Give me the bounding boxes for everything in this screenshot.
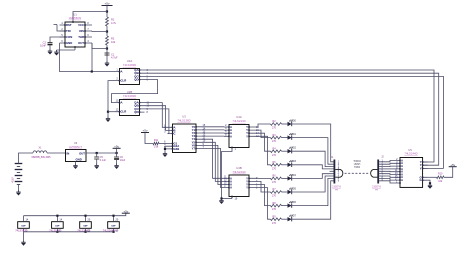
wire U6 GND down: [75, 162, 77, 164]
power block U5P: [108, 222, 120, 229]
connector J1 plug symbol: [335, 169, 343, 177]
resistor R2: [106, 36, 109, 45]
wire LED7 row to J1 pin 9: [292, 181, 334, 219]
svg-text:IN: IN: [67, 152, 70, 156]
svg-text:Y: Y: [246, 186, 248, 190]
wire U2A QB to U5: [145, 73, 439, 165]
wire VCC rail bottom row: [24, 213, 126, 216]
U1 pin stubs: [60, 25, 93, 50]
svg-text:LED4: LED4: [290, 174, 297, 177]
junction ground net right: [429, 182, 431, 184]
ground (U5): [428, 183, 432, 188]
svg-text:270: 270: [272, 195, 277, 198]
svg-text:OUT: OUT: [79, 152, 85, 156]
resistor R9: [271, 218, 282, 221]
regulator U6 body (LM7805): [66, 150, 87, 162]
wire U4B enable to ground net: [222, 198, 233, 200]
U3 pin nubs: [172, 126, 197, 150]
wire LED1 row to J1 pin 2: [292, 138, 334, 165]
U4B pin stubs: [224, 178, 254, 198]
ground (C5): [95, 164, 99, 169]
svg-text:4.7uF: 4.7uF: [111, 56, 118, 60]
svg-text:RST: RST: [66, 23, 72, 27]
ground (U1 GND): [54, 50, 58, 55]
resistor R4: [271, 150, 282, 153]
wire U3 Y2 to U4A: [201, 132, 224, 134]
diode LED6: [288, 201, 293, 207]
wire U4B out4 to row 8: [254, 188, 271, 220]
svg-text:LED3: LED3: [290, 160, 297, 163]
junction rail bottom U4P: [84, 231, 86, 233]
wire VCC to U1 top pin: [73, 12, 107, 23]
junction rail top U3P: [56, 215, 58, 217]
wire R10 to U5 enable: [428, 176, 437, 178]
wire +5V to R11: [145, 133, 153, 144]
svg-text:74LS244D: 74LS244D: [232, 170, 245, 174]
wire U3 G2A-G2B tie: [165, 146, 168, 149]
wire R2 to LED0: [282, 123, 288, 125]
wire to C5: [96, 153, 98, 157]
wire U3 Y6 to U4B: [201, 145, 224, 184]
svg-text:DIS: DIS: [79, 29, 84, 33]
resistor R7: [271, 191, 282, 194]
svg-text:10uF: 10uF: [120, 159, 126, 162]
wire +5V down to R1: [106, 6, 108, 18]
wire +5V bar to C6: [116, 148, 118, 156]
wire U3 Y3 to U4A: [201, 135, 224, 137]
cable TOR04 dashed: [345, 172, 369, 174]
svg-text:R11: R11: [154, 139, 159, 142]
svg-text:TRI: TRI: [66, 29, 71, 33]
U1 pin nubs: [64, 21, 86, 48]
svg-text:A: A: [121, 70, 123, 74]
svg-text:THR: THR: [78, 35, 84, 39]
svg-text:270: 270: [272, 208, 277, 211]
svg-text:270: 270: [272, 167, 277, 170]
wire R2 to C1: [106, 45, 108, 61]
wire U1 pin2 stub up: [57, 25, 65, 32]
U2A pin nubs: [119, 69, 141, 81]
svg-text:U3P: U3P: [55, 225, 60, 227]
wire J2 pin 8 to U5: [379, 178, 395, 180]
wire CV pin to C2: [50, 37, 65, 42]
+5V power symbol (U5 pullup): [449, 163, 457, 167]
wire U2A QC to U5: [145, 76, 444, 168]
wire J2 pin 9 to U5: [379, 181, 395, 183]
U5 pin nubs: [399, 160, 423, 184]
svg-text:LM555CN: LM555CN: [69, 16, 82, 20]
junction rail top U5P: [112, 215, 114, 217]
svg-text:QD: QD: [134, 78, 138, 82]
svg-text:LED7: LED7: [290, 215, 297, 218]
svg-text:OUT: OUT: [78, 41, 84, 45]
svg-text:U2P: U2P: [21, 225, 26, 227]
svg-text:A: A: [121, 101, 123, 105]
svg-text:CLR: CLR: [121, 79, 127, 83]
wire R3 to LED1: [282, 137, 288, 139]
junction +5V / reset wire: [106, 10, 108, 12]
wire U3 Y1 to U4A: [201, 129, 224, 131]
wire C5 to ground: [96, 159, 98, 164]
svg-text:21087-8: 21087-8: [332, 185, 341, 188]
wire U4A enable to ground net: [222, 150, 233, 199]
svg-text:C: C: [174, 132, 176, 136]
svg-text:74LS138D: 74LS138D: [177, 118, 190, 122]
buffer U4A body (74LS244): [229, 125, 249, 148]
wire J2 pin 4 to U5: [379, 168, 395, 170]
diode LED4: [288, 174, 293, 180]
battery B1: [15, 164, 23, 185]
U4B pin nubs: [228, 178, 250, 198]
wire U3 Y5 to U4B: [201, 142, 224, 181]
svg-text:TOR04: TOR04: [353, 161, 361, 163]
wire +5V down to R10: [444, 167, 453, 178]
junction enable ground net: [220, 197, 222, 199]
svg-text:Y: Y: [420, 166, 422, 170]
wire J2 pin 5 to U5: [379, 170, 395, 172]
U2B pin nubs: [119, 102, 141, 113]
diode LED0: [288, 120, 293, 126]
svg-text:G: G: [420, 178, 422, 182]
resistor R10: [437, 176, 445, 179]
wire U2B CLR: [108, 111, 115, 113]
svg-text:GND: GND: [66, 41, 72, 45]
resistor R6: [271, 177, 282, 180]
connector J2 plug symbol: [371, 169, 379, 177]
ground (battery): [16, 190, 20, 195]
wire J2 pin 3 to U5: [379, 165, 395, 168]
U2B pin stubs: [115, 103, 145, 113]
junction R2/THR/C1: [106, 47, 108, 49]
wire R1 to R2: [106, 26, 108, 36]
wire LED0 row to J1 pin 1: [292, 124, 334, 162]
+5V power symbol (555 rail): [102, 2, 113, 6]
capacitor C6: [114, 157, 119, 159]
wire battery - to ground: [18, 185, 20, 191]
ground (U4 enables): [219, 199, 223, 204]
svg-text:74LS393D: 74LS393D: [123, 94, 136, 98]
svg-text:270: 270: [272, 154, 277, 157]
svg-text:21087-8: 21087-8: [372, 185, 381, 188]
resistor R1: [106, 17, 109, 26]
svg-text:VCC: VCC: [78, 23, 84, 27]
U2A pin stubs: [115, 70, 145, 81]
ground (bottom row): [21, 240, 25, 245]
wire GND pin left: [57, 49, 76, 51]
wire C2 to ground: [49, 45, 51, 50]
svg-text:A: A: [230, 134, 232, 138]
wire OUT pin down: [91, 43, 93, 72]
U3 pin stubs: [168, 127, 202, 149]
wire TRI net down to counter clock: [60, 43, 116, 72]
wire LED4 row to J1 pin 6: [292, 174, 334, 179]
svg-text:0.1uF: 0.1uF: [100, 159, 107, 162]
wire R9 to LED7: [282, 218, 288, 220]
wire U2A QD to U2B clock: [112, 80, 158, 103]
wire LED6 row to J1 pin 8: [292, 178, 334, 205]
svg-text:270: 270: [272, 181, 277, 184]
svg-text:A: A: [230, 186, 232, 190]
svg-text:U4P: U4P: [83, 224, 88, 227]
wire GND rail bottom row: [24, 231, 114, 233]
junction rail bottom U3P: [56, 231, 58, 233]
counter U2B body (74LS393): [120, 100, 140, 116]
svg-text:74LS244D: 74LS244D: [404, 152, 417, 156]
wire U4A out1 to row 1: [254, 124, 271, 127]
ground (U3 G2): [163, 152, 167, 157]
wire U4B out2 to row 6: [254, 181, 271, 192]
U4A pin stubs: [224, 127, 254, 150]
svg-text:LED2: LED2: [290, 147, 297, 150]
svg-text:R2: R2: [111, 37, 115, 41]
wire U3 Y0 to U4A: [201, 126, 224, 128]
svg-text:10k: 10k: [111, 40, 116, 44]
wire LED2 row to J1 pin 3: [292, 151, 334, 166]
resistor R3: [271, 136, 282, 139]
svg-text:270: 270: [272, 127, 277, 130]
wire to U1 DIS pin: [92, 30, 107, 33]
wire U4B out1 to row 5: [254, 177, 271, 179]
wire R11 to U3 G1: [159, 143, 168, 145]
svg-text:Y: Y: [246, 134, 248, 138]
svg-text:UNSH: UNSH: [354, 164, 361, 166]
svg-text:Y7: Y7: [192, 147, 196, 151]
wire U2B QB to U3 B: [145, 106, 168, 131]
wire R4 to LED2: [282, 150, 288, 152]
capacitor C1: [105, 53, 110, 55]
U5 pin stubs: [395, 161, 428, 184]
wire J2 pin 6 to U5: [379, 173, 395, 176]
ground (C2): [48, 49, 52, 54]
wire R6 to LED4: [282, 177, 288, 179]
capacitor C2: [48, 43, 53, 45]
svg-text:270: 270: [272, 222, 277, 225]
wire U4B out3 to row 7: [254, 185, 271, 206]
wire LED5 row to J1 pin 7: [292, 176, 334, 192]
svg-text:QD: QD: [134, 110, 138, 114]
wire U4A out2 to row 2: [254, 130, 271, 138]
svg-text:DM05B_50U-R05: DM05B_50U-R05: [32, 156, 52, 159]
wire LED3 row to J1 pin 4: [292, 165, 334, 169]
svg-text:4.7k: 4.7k: [111, 21, 117, 25]
junction rail top U4P: [84, 215, 86, 217]
diode LED2: [288, 147, 293, 153]
power block U3P: [52, 222, 64, 229]
wire bottom rail to ground: [23, 232, 25, 240]
wire battery + to choke: [19, 153, 34, 164]
svg-text:LED1: LED1: [290, 133, 297, 136]
svg-text:A: A: [401, 178, 403, 182]
wire R7 to LED5: [282, 191, 288, 193]
svg-text:1.0k: 1.0k: [154, 146, 159, 149]
resistor R5: [271, 164, 282, 167]
wire J2 pin 2 to U5: [379, 162, 395, 165]
wire choke to U6 IN: [47, 152, 66, 154]
svg-text:TW04: TW04: [354, 167, 361, 169]
wire to U1 THR pin: [92, 43, 107, 49]
+5V power symbol (bottom rail): [122, 209, 130, 213]
wire U2B QA to U3 A: [145, 103, 168, 128]
pin2 stub bar: [54, 24, 58, 26]
connector J2 body: [377, 160, 379, 184]
wire U6 OUT to +5V node: [86, 152, 117, 154]
counter U2A body (74LS393): [120, 69, 140, 85]
+5V power symbol (U3 enable): [141, 129, 149, 133]
wire J2 pin 7 to U5: [379, 176, 395, 177]
svg-text:CON: CON: [66, 35, 72, 39]
svg-text:R10: R10: [438, 173, 443, 176]
resistor R11: [153, 142, 159, 145]
capacitor C5: [94, 157, 99, 159]
wire U2B QC to U3 C: [145, 109, 169, 134]
diode LED3: [288, 161, 293, 167]
svg-text:U6: U6: [74, 141, 78, 145]
svg-text:270: 270: [272, 140, 277, 143]
J1 pin 5 stub: [330, 170, 334, 172]
diode LED5: [288, 188, 293, 194]
buffer U4B body (74LS244): [229, 175, 249, 197]
wire U4A out3 to row 3: [254, 133, 271, 151]
wire G2 net to ground: [164, 149, 166, 152]
power block U4P: [80, 222, 92, 229]
diode LED7: [288, 215, 293, 221]
junction CLR net: [107, 111, 109, 113]
diode LED1: [288, 133, 293, 139]
junction OUT/clock net: [91, 70, 93, 72]
wire J2 pin 1 to U5: [379, 161, 395, 162]
junction R1/R2/DIS: [106, 30, 108, 32]
svg-text:74LS244D: 74LS244D: [232, 119, 245, 123]
wire U4A out4 to row 4: [254, 136, 271, 165]
wire R5 to LED3: [282, 164, 288, 166]
ground (U6): [73, 164, 77, 169]
wire C6 to ground: [116, 159, 118, 164]
svg-text:LED6: LED6: [290, 201, 297, 204]
wire U2A CLR down: [108, 81, 115, 117]
svg-text:GND: GND: [76, 158, 82, 162]
svg-text:LED5: LED5: [290, 187, 297, 190]
svg-text:LED0: LED0: [290, 119, 297, 122]
buffer U5 body (74LS244): [400, 158, 423, 188]
svg-text:4.5V: 4.5V: [11, 177, 15, 183]
resistor R8: [271, 204, 282, 207]
junction C5: [96, 152, 98, 154]
svg-text:10nF: 10nF: [40, 44, 46, 48]
junction G2 net: [164, 148, 166, 150]
+5V power symbol (regulator out): [113, 145, 121, 149]
wire U3 Y7 to U4B: [201, 149, 224, 188]
svg-text:U5P: U5P: [111, 225, 116, 227]
junction rail bottom U5P: [112, 231, 114, 233]
svg-text:G2B: G2B: [174, 147, 180, 151]
connector J1 body: [334, 160, 336, 184]
decoder U3 body (74LS138): [173, 124, 197, 153]
svg-text:LM7805CT: LM7805CT: [69, 145, 82, 149]
ground (CLR net): [106, 117, 110, 122]
ground (C6): [114, 164, 118, 169]
svg-text:74LS393D: 74LS393D: [123, 63, 136, 67]
svg-text:R1: R1: [111, 18, 115, 22]
wire U5 G2 to ground: [428, 180, 430, 183]
power block U2P: [18, 222, 30, 229]
U4A pin nubs: [228, 126, 250, 148]
resistor R2: [271, 123, 282, 126]
junction C6: [116, 152, 118, 154]
wire U3 Y4 to U4B: [201, 139, 224, 178]
ground (C1): [105, 61, 109, 66]
svg-text:CLR: CLR: [121, 110, 127, 114]
wire U2A QA to U5: [145, 70, 435, 162]
inductor/choke X1: [33, 151, 47, 153]
wire R8 to LED6: [282, 205, 288, 207]
timer IC U1 body (LM555): [65, 22, 85, 47]
